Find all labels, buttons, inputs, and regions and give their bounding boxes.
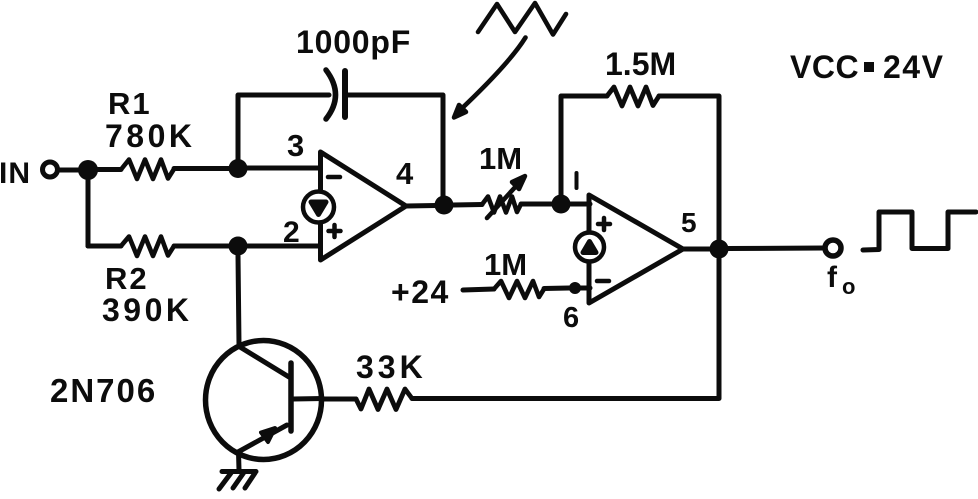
svg-text:1M: 1M	[479, 141, 522, 176]
U1 noninverting input marker	[329, 225, 341, 237]
triangle wave symbol	[478, 3, 566, 35]
resistor R1 780K	[96, 160, 230, 180]
node A input junction	[78, 160, 98, 180]
label VCC = 24V	[790, 49, 944, 85]
pin 1 label	[575, 173, 579, 188]
node F output junction	[710, 240, 729, 259]
input terminal	[43, 162, 58, 177]
wire node F down and left to 33K	[412, 258, 719, 399]
svg-text:+24: +24	[391, 274, 450, 310]
ground	[219, 472, 256, 490]
svg-text:1M: 1M	[484, 247, 527, 282]
svg-text:VCC: VCC	[790, 49, 859, 85]
svg-text:780K: 780K	[105, 118, 196, 154]
svg-text:4: 4	[396, 156, 414, 191]
wire +24 to 1M resistor	[463, 289, 494, 290]
wire emitter to ground	[236, 452, 242, 470]
node D U1 output junction	[435, 196, 454, 215]
svg-text:2: 2	[283, 216, 300, 249]
wire U2 output to node F	[683, 247, 711, 252]
pin 6 connection dot	[569, 282, 581, 294]
output terminal	[825, 240, 841, 256]
node B pin3 junction	[229, 159, 248, 178]
op-amp U2 Norton amplifier	[589, 195, 683, 303]
svg-text:IN: IN	[0, 157, 31, 190]
svg-text:6: 6	[563, 302, 579, 334]
U1 inverting input marker	[328, 175, 340, 180]
wire U1 output to node D	[406, 203, 436, 209]
wire node E to U2 pin 1	[570, 202, 590, 207]
svg-text:24V: 24V	[883, 49, 944, 85]
wire node E up to 1.5M resistor	[561, 96, 607, 196]
potentiometer 1M	[482, 176, 525, 218]
wire node A down to R2 row	[86, 178, 91, 246]
U2 inverting input marker	[597, 279, 609, 284]
svg-text:5: 5	[681, 207, 697, 238]
node C pin2 junction	[229, 237, 248, 256]
svg-text:R1: R1	[108, 86, 152, 121]
resistor R2 390K	[88, 237, 230, 257]
resistor R5 1M to pin 6	[494, 281, 569, 298]
wire input terminal to node A	[58, 168, 82, 173]
wire node F to output terminal	[728, 246, 824, 252]
wire 1.5M to node F	[659, 96, 719, 240]
wire node B up and right to capacitor	[238, 95, 329, 160]
annotation arrow from triangle wave to node D	[454, 38, 526, 118]
wire capacitor to node D	[348, 95, 443, 198]
node E pin1 junction	[552, 195, 571, 214]
capacitor C1 1000pF	[326, 70, 345, 119]
svg-text:33K: 33K	[356, 349, 427, 385]
resistor R3 1.5M	[607, 87, 659, 106]
svg-text:R2: R2	[105, 261, 149, 296]
square wave symbol	[863, 212, 976, 250]
wire node D to potentiometer	[453, 202, 482, 208]
transistor Q1 2N706	[206, 341, 324, 460]
wire node C to U1 pin 2	[246, 244, 320, 249]
wire node C down to transistor collector	[238, 255, 239, 345]
svg-text:390K: 390K	[102, 292, 193, 328]
resistor R4 33K	[323, 389, 412, 410]
wire node B to U1 pin 3	[246, 166, 320, 171]
svg-text:1.5M: 1.5M	[605, 46, 676, 82]
svg-text:f: f	[827, 261, 838, 294]
U2 current source symbol	[575, 233, 604, 262]
svg-text:1000pF: 1000pF	[296, 24, 411, 60]
op-amp U1 Norton amplifier	[321, 152, 407, 260]
svg-text:2N706: 2N706	[50, 372, 157, 409]
U1 current source symbol	[303, 192, 334, 223]
svg-text:o: o	[842, 274, 855, 299]
U2 noninverting input marker	[598, 218, 610, 230]
wire potentiometer to node E	[521, 202, 554, 207]
wire dot to U2 pin 6	[580, 286, 590, 291]
svg-text:3: 3	[287, 128, 304, 163]
